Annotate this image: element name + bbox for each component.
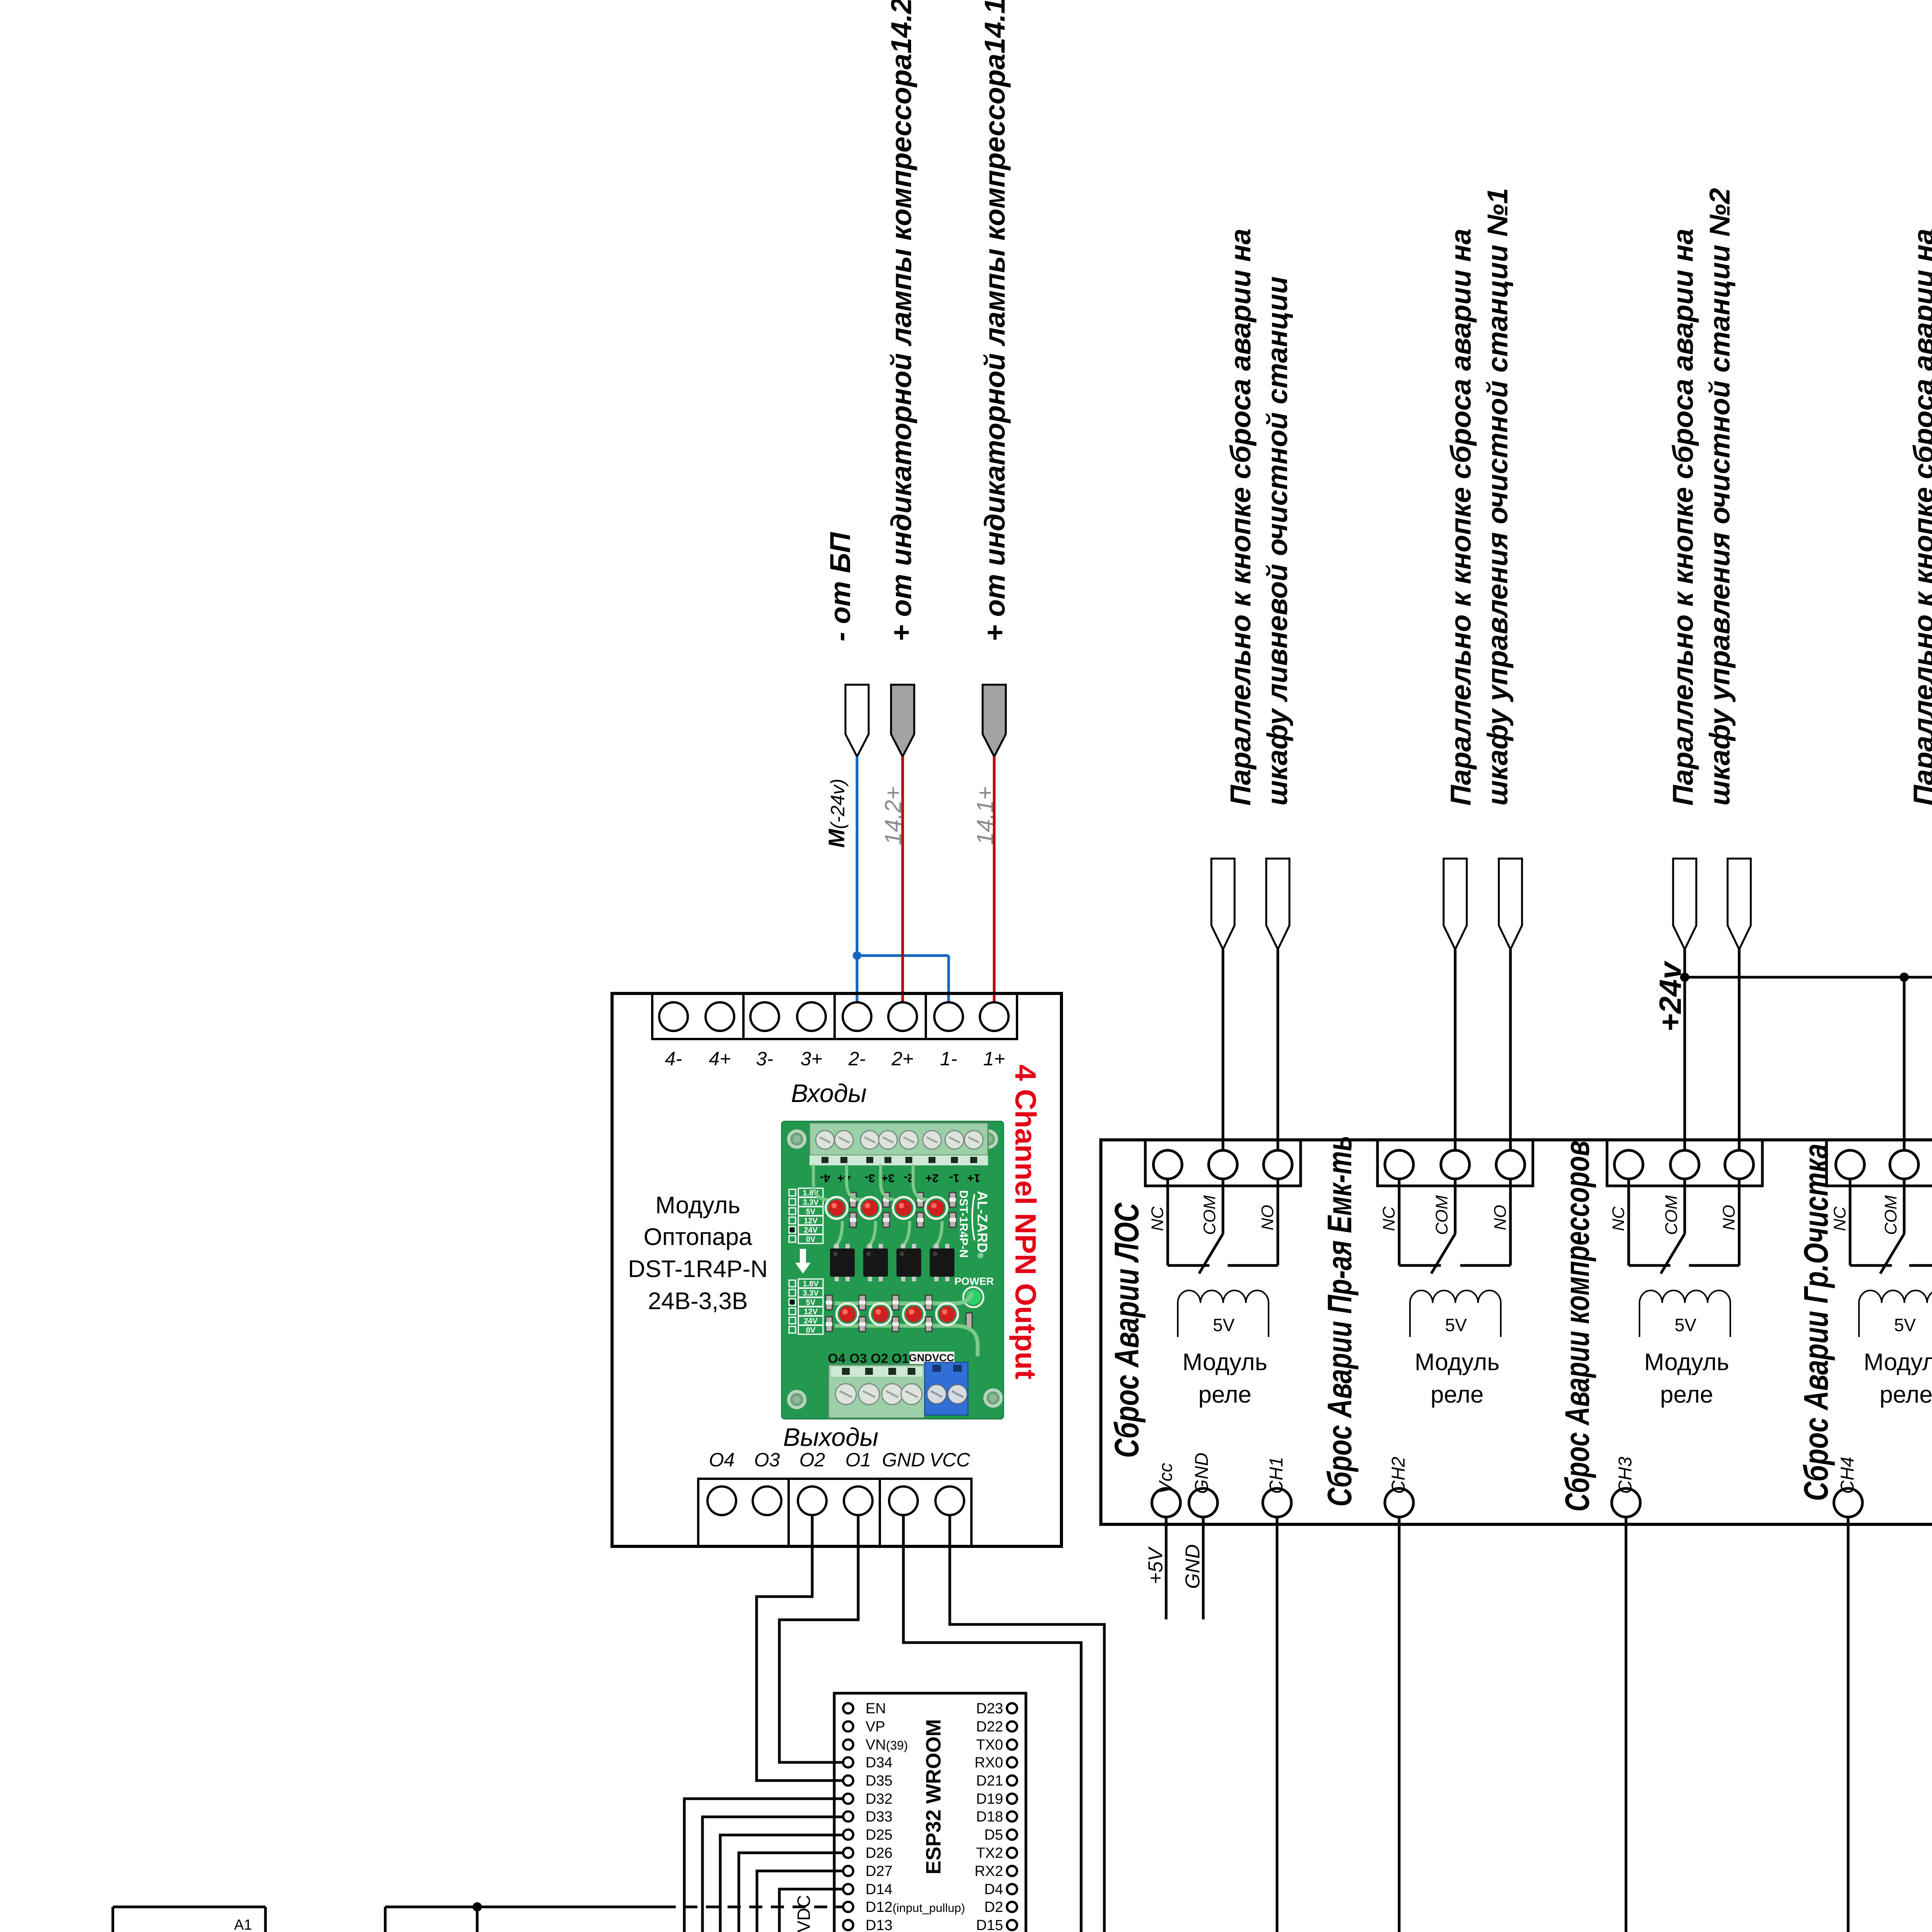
svg-text:RX2: RX2 <box>975 1863 1003 1879</box>
svg-text:COM: COM <box>1432 1195 1451 1235</box>
svg-text:Модуль: Модуль <box>1182 1349 1267 1376</box>
svg-text:Параллельно к кнопке сброса ав: Параллельно к кнопке сброса аварии на <box>1908 229 1932 806</box>
svg-text:0V: 0V <box>806 1235 816 1244</box>
svg-text:NO: NO <box>1258 1205 1277 1230</box>
svg-text:24В-3,3В: 24В-3,3В <box>648 1288 748 1315</box>
svg-text:24V: 24V <box>804 1317 818 1325</box>
svg-text:3+: 3+ <box>800 1048 822 1070</box>
svg-text:NC: NC <box>1379 1206 1398 1231</box>
svg-text:D18: D18 <box>976 1809 1003 1825</box>
svg-text:реле: реле <box>1660 1381 1713 1408</box>
svg-text:1-: 1- <box>940 1048 957 1070</box>
svg-text:TX0: TX0 <box>976 1737 1003 1753</box>
svg-text:Сброс Аварии ЛОС: Сброс Аварии ЛОС <box>1107 1202 1146 1458</box>
svg-text:O1: O1 <box>845 1449 871 1471</box>
svg-text:шкафу управления очистной стан: шкафу управления очистной станции №1 <box>1481 188 1514 806</box>
svg-text:CH2: CH2 <box>1388 1457 1409 1494</box>
svg-text:шкафу ливневой очистной станци: шкафу ливневой очистной станции <box>1261 276 1293 806</box>
svg-text:Параллельно к кнопке сброса ав: Параллельно к кнопке сброса аварии на <box>1667 229 1699 806</box>
svg-text:Оптопара: Оптопара <box>644 1224 753 1250</box>
svg-text:NC: NC <box>1148 1206 1167 1231</box>
svg-text:+5V: +5V <box>1145 1546 1167 1584</box>
svg-text:NO: NO <box>1491 1205 1510 1230</box>
svg-text:Сброс Аварии компрессоров: Сброс Аварии компрессоров <box>1558 1141 1596 1512</box>
svg-text:реле: реле <box>1430 1381 1484 1408</box>
svg-text:Параллельно к кнопке сброса ав: Параллельно к кнопке сброса аварии на <box>1445 229 1477 806</box>
svg-text:реле: реле <box>1198 1381 1252 1408</box>
svg-text:2.1-13: 2.1-13 <box>1929 1048 1932 1117</box>
svg-text:Vcc: Vcc <box>1156 1463 1176 1494</box>
svg-text:D4: D4 <box>984 1881 1003 1898</box>
svg-text:GND: GND <box>1182 1544 1204 1589</box>
svg-text:Выходы: Выходы <box>783 1423 879 1451</box>
svg-text:O4: O4 <box>828 1351 845 1366</box>
svg-text:D21: D21 <box>976 1773 1003 1789</box>
svg-text:ESP32 WROOM: ESP32 WROOM <box>922 1719 945 1874</box>
svg-text:2-: 2- <box>848 1048 866 1070</box>
svg-text:TX2: TX2 <box>976 1845 1003 1861</box>
svg-text:3-: 3- <box>865 1172 875 1184</box>
svg-text:1+: 1+ <box>967 1172 980 1184</box>
svg-text:3-: 3- <box>756 1048 773 1070</box>
svg-text:M(-24v): M(-24v) <box>824 779 849 848</box>
svg-text:D26: D26 <box>866 1845 893 1861</box>
svg-text:Модуль: Модуль <box>1864 1349 1932 1376</box>
svg-text:D5: D5 <box>984 1827 1003 1843</box>
svg-text:NC: NC <box>1609 1206 1628 1231</box>
svg-text:12V: 12V <box>804 1308 818 1316</box>
svg-text:GND: GND <box>882 1449 925 1471</box>
svg-text:RX0: RX0 <box>975 1755 1003 1771</box>
svg-text:COM: COM <box>1881 1195 1900 1235</box>
svg-text:D22: D22 <box>976 1719 1003 1735</box>
svg-text:A1: A1 <box>234 1917 252 1932</box>
svg-text:CH4: CH4 <box>1837 1457 1858 1494</box>
svg-text:AL-ZARD®: AL-ZARD® <box>975 1191 990 1259</box>
svg-text:- от БП: - от БП <box>824 532 856 641</box>
svg-text:POWER: POWER <box>954 1276 994 1287</box>
svg-text:реле: реле <box>1879 1381 1932 1408</box>
svg-text:+24v: +24v <box>1653 960 1687 1032</box>
svg-text:5V: 5V <box>806 1207 816 1216</box>
svg-text:5~14VDC: 5~14VDC <box>794 1895 814 1932</box>
svg-text:D12(input_pullup): D12(input_pullup) <box>866 1899 965 1915</box>
svg-text:D34: D34 <box>866 1755 893 1771</box>
svg-text:шкафу управления очистной стан: шкафу управления очистной станции №2 <box>1704 188 1736 806</box>
svg-text:O1: O1 <box>891 1351 909 1366</box>
svg-text:Параллельно к кнопке сброса ав: Параллельно к кнопке сброса аварии на <box>1225 229 1257 806</box>
svg-text:DST-1R4P-N: DST-1R4P-N <box>628 1256 768 1282</box>
svg-text:0V: 0V <box>806 1326 816 1335</box>
svg-text:COM: COM <box>1200 1195 1219 1235</box>
svg-text:4 Channel NPN Output: 4 Channel NPN Output <box>1009 1065 1042 1379</box>
svg-text:Модуль: Модуль <box>1644 1349 1729 1376</box>
svg-text:1.8V: 1.8V <box>803 1280 819 1288</box>
svg-text:5V: 5V <box>1894 1315 1916 1335</box>
svg-text:5V: 5V <box>1213 1315 1235 1335</box>
svg-text:1+: 1+ <box>983 1048 1005 1070</box>
svg-text:D27: D27 <box>866 1863 893 1879</box>
svg-text:3.3V: 3.3V <box>803 1198 819 1207</box>
svg-text:4+: 4+ <box>709 1048 731 1070</box>
svg-text:24V: 24V <box>804 1226 818 1235</box>
svg-text:O2: O2 <box>799 1449 825 1471</box>
svg-text:D19: D19 <box>976 1791 1003 1807</box>
svg-text:VCC: VCC <box>929 1449 970 1471</box>
svg-text:+ от индикаторной лампы компре: + от индикаторной лампы компрессора14.1 <box>979 0 1011 641</box>
svg-text:D2: D2 <box>984 1899 1003 1915</box>
svg-text:O2: O2 <box>871 1351 888 1366</box>
svg-text:4+: 4+ <box>837 1172 850 1184</box>
svg-text:O3: O3 <box>754 1449 780 1471</box>
svg-text:2+: 2+ <box>891 1048 913 1070</box>
svg-text:O4: O4 <box>709 1449 735 1471</box>
svg-text:Сброс Аварии Пр-ая Емк-ть: Сброс Аварии Пр-ая Емк-ть <box>1320 1136 1359 1507</box>
svg-text:D33: D33 <box>866 1809 893 1825</box>
svg-text:D13: D13 <box>866 1917 893 1932</box>
svg-text:GND: GND <box>1192 1452 1212 1494</box>
svg-text:D23: D23 <box>976 1701 1003 1717</box>
svg-text:COM: COM <box>1662 1195 1681 1235</box>
svg-text:VN(39): VN(39) <box>866 1737 908 1753</box>
svg-text:5V: 5V <box>1445 1315 1467 1335</box>
svg-text:3.3V: 3.3V <box>803 1289 819 1298</box>
svg-text:12V: 12V <box>804 1217 818 1225</box>
svg-text:Модуль: Модуль <box>1415 1349 1500 1376</box>
svg-text:1-: 1- <box>949 1172 960 1184</box>
svg-text:5V: 5V <box>1675 1315 1697 1335</box>
svg-text:+ от индикаторной лампы компре: + от индикаторной лампы компрессора14.2 <box>885 0 917 641</box>
svg-text:4-: 4- <box>665 1048 682 1070</box>
svg-text:Модуль: Модуль <box>655 1192 740 1219</box>
svg-text:Входы: Входы <box>791 1079 867 1107</box>
svg-text:VP: VP <box>866 1719 885 1735</box>
svg-text:CH1: CH1 <box>1266 1457 1287 1494</box>
svg-text:Сброс Аварии Гр.Очистка: Сброс Аварии Гр.Очистка <box>1797 1144 1835 1501</box>
svg-text:D32: D32 <box>866 1791 893 1807</box>
svg-text:NO: NO <box>1719 1205 1738 1230</box>
svg-text:5V: 5V <box>806 1298 816 1307</box>
svg-text:4-: 4- <box>820 1172 830 1184</box>
svg-text:DST-1R4P-N: DST-1R4P-N <box>957 1190 970 1258</box>
svg-text:D15: D15 <box>976 1917 1003 1932</box>
svg-text:3+: 3+ <box>881 1172 895 1184</box>
svg-text:O3: O3 <box>849 1351 867 1366</box>
svg-text:D35: D35 <box>866 1773 893 1789</box>
svg-text:2+: 2+ <box>925 1172 939 1184</box>
svg-text:D25: D25 <box>866 1827 893 1843</box>
svg-text:CH3: CH3 <box>1615 1457 1636 1494</box>
svg-text:D14: D14 <box>866 1881 893 1898</box>
svg-text:EN: EN <box>866 1701 886 1717</box>
